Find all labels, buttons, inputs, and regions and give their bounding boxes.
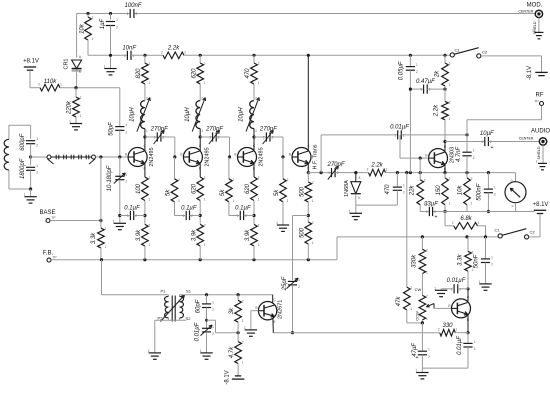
svg-text:1: 1: [204, 243, 206, 247]
svg-text:B: B: [448, 304, 450, 308]
svg-text:60pF: 60pF: [196, 299, 202, 313]
svg-text:0.47µF: 0.47µF: [416, 79, 435, 85]
svg-text:1µF: 1µF: [100, 18, 106, 29]
svg-text:1: 1: [349, 209, 351, 213]
svg-text:1: 1: [258, 198, 260, 202]
svg-text:2: 2: [125, 180, 127, 184]
svg-text:1: 1: [536, 159, 538, 163]
svg-text:S2: S2: [186, 316, 192, 321]
svg-text:10nF: 10nF: [122, 45, 136, 51]
svg-text:3.3k: 3.3k: [91, 232, 97, 244]
svg-text:500: 500: [299, 227, 305, 238]
svg-text:B: B: [180, 153, 182, 157]
svg-text:P1: P1: [161, 289, 167, 294]
svg-text:2: 2: [212, 308, 214, 312]
svg-text:1: 1: [410, 307, 412, 311]
svg-text:1: 1: [532, 28, 534, 32]
svg-text:1: 1: [244, 326, 246, 330]
svg-text:2: 2: [116, 26, 118, 30]
svg-text:1: 1: [149, 198, 151, 202]
svg-text:B: B: [125, 153, 127, 157]
svg-text:47k: 47k: [396, 296, 402, 307]
svg-text:2: 2: [472, 250, 474, 254]
svg-text:-8.1V: -8.1V: [225, 370, 231, 384]
svg-text:1: 1: [149, 243, 151, 247]
svg-text:0.1µF: 0.1µF: [124, 206, 140, 212]
svg-text:620: 620: [245, 183, 251, 194]
svg-text:10µH: 10µH: [239, 107, 245, 122]
svg-text:3.3k: 3.3k: [458, 254, 464, 266]
svg-text:C1: C1: [454, 48, 460, 53]
svg-text:2: 2: [416, 70, 418, 74]
svg-text:2: 2: [204, 176, 206, 180]
svg-text:2: 2: [410, 286, 412, 290]
svg-text:CR1: CR1: [64, 58, 70, 69]
svg-text:2.2k: 2.2k: [167, 46, 180, 52]
svg-text:330k: 330k: [412, 254, 418, 268]
svg-text:1: 1: [212, 300, 214, 304]
svg-text:820: 820: [136, 68, 142, 79]
svg-text:2: 2: [474, 347, 476, 351]
svg-text:CENTER: CENTER: [518, 10, 533, 14]
svg-text:2: 2: [449, 100, 451, 104]
svg-text:220k: 220k: [67, 100, 73, 115]
svg-text:1: 1: [60, 83, 62, 87]
svg-text:0.01µF: 0.01µF: [390, 125, 409, 131]
svg-text:2: 2: [36, 144, 38, 148]
svg-text:1: 1: [113, 219, 115, 223]
svg-text:1: 1: [255, 129, 257, 133]
svg-text:2: 2: [367, 168, 369, 172]
svg-text:1: 1: [36, 164, 38, 168]
svg-text:2: 2: [426, 248, 428, 252]
svg-text:1: 1: [200, 349, 202, 353]
svg-text:150: 150: [436, 185, 442, 196]
svg-text:1: 1: [80, 114, 82, 118]
svg-text:1: 1: [474, 340, 476, 344]
svg-text:1: 1: [258, 81, 260, 85]
svg-text:10k: 10k: [80, 23, 86, 34]
svg-text:1: 1: [416, 369, 418, 373]
svg-text:C2: C2: [529, 230, 535, 235]
svg-text:2k: 2k: [435, 70, 441, 78]
svg-text:110k: 110k: [44, 79, 58, 85]
svg-text:2: 2: [178, 178, 180, 182]
svg-text:TP: TP: [51, 216, 56, 220]
svg-text:1: 1: [403, 184, 405, 188]
svg-text:1: 1: [287, 199, 289, 203]
svg-text:3.9k: 3.9k: [136, 229, 142, 241]
svg-text:2: 2: [287, 178, 289, 182]
svg-text:2: 2: [204, 223, 206, 227]
svg-text:10µH: 10µH: [130, 107, 136, 122]
svg-text:2: 2: [105, 227, 107, 231]
svg-text:1: 1: [426, 271, 428, 275]
svg-text:1: 1: [105, 245, 107, 249]
svg-text:1: 1: [276, 221, 278, 225]
svg-text:1: 1: [472, 268, 474, 272]
svg-text:TP: TP: [52, 256, 57, 260]
svg-text:1: 1: [263, 136, 265, 140]
svg-text:E: E: [274, 320, 276, 324]
svg-text:-8.1V: -8.1V: [527, 66, 533, 80]
svg-text:1: 1: [491, 255, 493, 259]
svg-text:2: 2: [92, 16, 94, 20]
svg-text:2N2671: 2N2671: [278, 300, 284, 319]
svg-text:1: 1: [116, 18, 118, 22]
svg-text:2: 2: [434, 210, 436, 214]
svg-text:2: 2: [428, 355, 430, 359]
svg-text:1: 1: [184, 50, 186, 54]
svg-text:2: 2: [403, 190, 405, 194]
svg-text:1: 1: [178, 199, 180, 203]
svg-text:H.F. Trans: H.F. Trans: [313, 144, 319, 169]
svg-text:CCW: CCW: [415, 311, 420, 321]
svg-text:SHIELD: SHIELD: [537, 146, 541, 159]
svg-text:TP: TP: [534, 100, 539, 104]
svg-text:270pF: 270pF: [259, 127, 277, 133]
svg-text:470: 470: [245, 68, 251, 79]
svg-text:2: 2: [204, 62, 206, 66]
svg-text:+: +: [435, 215, 438, 221]
svg-text:100nF: 100nF: [124, 3, 141, 9]
svg-text:2: 2: [242, 299, 244, 303]
svg-text:0.1µF: 0.1µF: [235, 206, 251, 212]
svg-text:2N303: 2N303: [449, 147, 455, 163]
svg-text:620: 620: [191, 183, 197, 194]
svg-text:2: 2: [201, 97, 203, 101]
svg-text:2: 2: [233, 178, 235, 182]
svg-text:500nF: 500nF: [477, 183, 483, 200]
svg-text:B: B: [255, 306, 257, 310]
svg-text:1: 1: [312, 241, 314, 245]
svg-text:25pF: 25pF: [282, 276, 288, 291]
svg-text:1: 1: [201, 129, 203, 133]
svg-text:1: 1: [394, 133, 396, 137]
svg-text:2: 2: [491, 263, 493, 267]
svg-text:4.7k: 4.7k: [229, 346, 235, 358]
svg-text:1: 1: [473, 149, 475, 153]
svg-text:600pF: 600pF: [20, 133, 26, 150]
svg-text:2: 2: [258, 62, 260, 66]
svg-text:C1: C1: [494, 228, 500, 233]
svg-text:+8.1V: +8.1V: [533, 202, 549, 208]
svg-text:2: 2: [149, 62, 151, 66]
svg-text:50pF: 50pF: [109, 122, 115, 136]
svg-text:0.01µF: 0.01µF: [447, 278, 466, 284]
svg-text:5k: 5k: [274, 189, 280, 196]
svg-text:2N2495: 2N2495: [149, 147, 155, 166]
svg-text:1: 1: [209, 136, 211, 140]
svg-text:2: 2: [212, 332, 214, 336]
svg-text:2N2495: 2N2495: [259, 147, 265, 166]
svg-text:2: 2: [161, 50, 163, 54]
svg-text:1: 1: [416, 63, 418, 67]
svg-text:1: 1: [426, 210, 428, 214]
svg-text:2: 2: [36, 170, 38, 174]
svg-text:B: B: [425, 154, 427, 158]
svg-text:1: 1: [104, 65, 106, 69]
svg-text:2: 2: [424, 179, 426, 183]
svg-text:1: 1: [420, 88, 422, 92]
svg-text:2.2k: 2.2k: [370, 162, 383, 168]
svg-text:10k: 10k: [457, 185, 463, 196]
svg-text:2: 2: [258, 223, 260, 227]
svg-text:2: 2: [312, 221, 314, 225]
svg-text:1: 1: [127, 12, 129, 16]
svg-text:620: 620: [191, 68, 197, 79]
svg-text:1: 1: [478, 221, 480, 225]
svg-text:o: o: [511, 179, 513, 183]
svg-text:1: 1: [125, 123, 127, 127]
svg-text:CENTER: CENTER: [519, 136, 534, 140]
svg-text:AUDIO: AUDIO: [531, 129, 550, 135]
svg-text:1: 1: [148, 349, 150, 353]
svg-text:MOD.: MOD.: [527, 3, 543, 9]
svg-text:1: 1: [471, 202, 473, 206]
svg-text:2: 2: [426, 294, 428, 298]
svg-text:1: 1: [242, 319, 244, 323]
svg-text:2: 2: [449, 62, 451, 66]
svg-text:2: 2: [125, 130, 127, 134]
svg-text:33µF: 33µF: [424, 202, 438, 208]
svg-text:10µF: 10µF: [480, 131, 494, 137]
svg-text:+: +: [491, 145, 494, 151]
svg-text:10-180pF: 10-180pF: [107, 165, 113, 191]
svg-text:1: 1: [69, 120, 71, 124]
svg-text:0.01µF: 0.01µF: [195, 322, 201, 341]
svg-text:3k: 3k: [229, 307, 235, 314]
svg-text:B: B: [234, 153, 236, 157]
svg-text:0.05µF: 0.05µF: [399, 61, 405, 80]
svg-text:22k: 22k: [410, 185, 416, 197]
svg-text:1: 1: [434, 286, 436, 290]
svg-text:470: 470: [385, 184, 391, 195]
svg-text:o: o: [512, 204, 514, 208]
svg-text:CW: CW: [415, 287, 422, 292]
svg-text:2: 2: [473, 156, 475, 160]
svg-text:2: 2: [149, 176, 151, 180]
svg-text:1: 1: [124, 54, 126, 58]
svg-text:5k: 5k: [220, 189, 226, 196]
svg-text:1: 1: [494, 186, 496, 190]
svg-text:0.01µF: 0.01µF: [457, 336, 463, 355]
svg-text:2: 2: [38, 83, 40, 87]
svg-text:2: 2: [494, 193, 496, 197]
svg-text:1: 1: [455, 328, 457, 332]
svg-text:5k: 5k: [166, 189, 172, 196]
svg-text:1: 1: [386, 168, 388, 172]
svg-text:1: 1: [24, 193, 26, 197]
svg-text:+8.1V: +8.1V: [23, 59, 39, 65]
svg-text:2: 2: [255, 97, 257, 101]
svg-text:S1: S1: [186, 289, 192, 294]
svg-text:2: 2: [80, 96, 82, 100]
svg-text:1: 1: [242, 361, 244, 365]
svg-text:2: 2: [449, 177, 451, 181]
svg-text:1: 1: [258, 243, 260, 247]
svg-text:1: 1: [233, 199, 235, 203]
svg-text:1: 1: [149, 81, 151, 85]
svg-text:100: 100: [136, 183, 142, 194]
svg-text:500: 500: [299, 186, 305, 197]
svg-text:1: 1: [428, 348, 430, 352]
svg-text:1: 1: [204, 198, 206, 202]
svg-text:2: 2: [242, 341, 244, 345]
svg-text:1: 1: [146, 129, 148, 133]
svg-text:1: 1: [154, 136, 156, 140]
svg-text:0.1µF: 0.1µF: [181, 206, 197, 212]
svg-text:1: 1: [204, 81, 206, 85]
svg-text:1: 1: [479, 280, 481, 284]
svg-text:1: 1: [92, 37, 94, 41]
svg-text:1: 1: [449, 83, 451, 87]
svg-text:6.8k: 6.8k: [460, 216, 472, 222]
svg-text:2: 2: [258, 176, 260, 180]
svg-text:2: 2: [146, 97, 148, 101]
svg-text:1: 1: [36, 137, 38, 141]
svg-text:1: 1: [481, 140, 483, 144]
svg-text:B: B: [289, 153, 291, 157]
svg-text:2: 2: [312, 181, 314, 185]
svg-text:2: 2: [438, 328, 440, 332]
svg-text:2N2495: 2N2495: [204, 147, 210, 166]
svg-text:4.7nF: 4.7nF: [456, 146, 462, 162]
svg-text:2: 2: [298, 285, 300, 289]
svg-text:1: 1: [426, 317, 428, 321]
svg-text:1: 1: [312, 199, 314, 203]
svg-text:1: 1: [328, 171, 330, 175]
svg-text:1: 1: [449, 117, 451, 121]
svg-text:2: 2: [452, 221, 454, 225]
svg-text:330: 330: [442, 323, 453, 329]
svg-text:C2: C2: [482, 50, 488, 55]
svg-text:1: 1: [125, 173, 127, 177]
svg-text:270pF: 270pF: [205, 127, 223, 133]
svg-text:2: 2: [136, 12, 138, 16]
svg-text:270pF: 270pF: [326, 162, 344, 168]
svg-text:47µF: 47µF: [412, 343, 418, 357]
svg-text:1: 1: [298, 278, 300, 282]
svg-text:1: 1: [449, 202, 451, 206]
svg-text:2: 2: [149, 223, 151, 227]
svg-text:2: 2: [471, 177, 473, 181]
svg-text:1: 1: [212, 325, 214, 329]
svg-text:1800pF: 1800pF: [20, 158, 26, 179]
svg-text:50nF: 50nF: [474, 254, 480, 268]
svg-text:270pF: 270pF: [150, 127, 168, 133]
svg-text:1N68A: 1N68A: [344, 180, 350, 197]
svg-text:2.2k: 2.2k: [434, 104, 440, 117]
svg-text:3.9k: 3.9k: [191, 229, 197, 241]
svg-text:10µH: 10µH: [185, 107, 191, 122]
svg-text:RF: RF: [536, 92, 544, 98]
svg-text:3.9k: 3.9k: [245, 229, 251, 241]
